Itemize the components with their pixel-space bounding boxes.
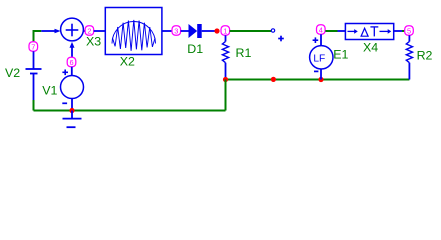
probe plus marker — [278, 36, 284, 42]
wire drop to low rail — [225, 80, 227, 111]
node 2 — [85, 26, 94, 36]
svg-text:R1: R1 — [236, 46, 252, 60]
svg-text:X2: X2 — [120, 55, 135, 69]
V1 minus marker — [62, 102, 67, 104]
wire summer to node 2 — [83, 30, 89, 32]
X4 delay icon — [348, 27, 392, 37]
node 1 — [221, 26, 230, 36]
battery V2 — [26, 51, 42, 100]
E1 minus marker — [314, 70, 318, 72]
wire summer left lead — [41, 30, 55, 32]
wire V2 to low rail — [33, 100, 35, 111]
wire node 7 riser to top rail corner — [34, 31, 42, 42]
node 4 — [317, 25, 326, 35]
probe open terminal — [271, 29, 274, 32]
svg-text:4: 4 — [319, 26, 323, 35]
box X4 — [345, 24, 393, 40]
svg-text:6: 6 — [69, 58, 73, 67]
svg-text:X3: X3 — [86, 35, 101, 49]
svg-text:E1: E1 — [333, 47, 348, 61]
junction dot V1 bottom — [69, 108, 74, 113]
node 3 — [172, 26, 181, 36]
junction dot E1 bottom — [318, 77, 323, 82]
source V1 — [61, 67, 84, 111]
diode D1 — [189, 24, 202, 38]
junction dot diode cathode / node 1 — [214, 28, 219, 33]
wire summer bottom input with arrowhead — [71, 47, 73, 57]
box X2 — [105, 8, 162, 55]
svg-text:1: 1 — [223, 27, 227, 36]
svg-text:2: 2 — [87, 27, 91, 36]
E1 plus marker — [313, 37, 319, 43]
wire node 1 to probe terminal — [230, 30, 271, 32]
summer left input arrowhead — [55, 29, 61, 33]
wire diode to node 1 — [202, 30, 216, 32]
wire low rail — [34, 110, 226, 112]
node 7 — [29, 42, 38, 52]
svg-text:V2: V2 — [5, 66, 20, 80]
resistor R2 — [406, 35, 412, 79]
source E1 — [310, 34, 333, 79]
wire X4 to node 5 — [394, 30, 402, 32]
wire node 3 to diode — [181, 30, 190, 32]
wire node 2 to X2 — [94, 30, 106, 32]
wire X2 to node 3 — [162, 30, 173, 32]
svg-text:R2: R2 — [417, 49, 433, 63]
V1 plus marker — [62, 70, 68, 76]
ground — [63, 111, 82, 128]
wire mid rail — [226, 79, 410, 81]
node 5 — [405, 26, 414, 36]
wire node 4 to X4 — [325, 30, 337, 32]
svg-text:D1: D1 — [187, 42, 203, 56]
svg-text:3: 3 — [174, 27, 178, 36]
junction dot mid rail center — [271, 77, 276, 82]
svg-text:7: 7 — [31, 43, 35, 52]
resistor R1 — [222, 35, 228, 79]
svg-text:V1: V1 — [42, 84, 57, 98]
svg-text:X4: X4 — [363, 41, 378, 55]
junction dot R1 bottom — [223, 77, 228, 82]
svg-text:LF: LF — [313, 53, 325, 64]
node 6 — [67, 57, 76, 67]
summing junction X3 — [61, 18, 84, 41]
X2 waveform icon — [112, 20, 156, 51]
svg-text:5: 5 — [407, 27, 411, 36]
